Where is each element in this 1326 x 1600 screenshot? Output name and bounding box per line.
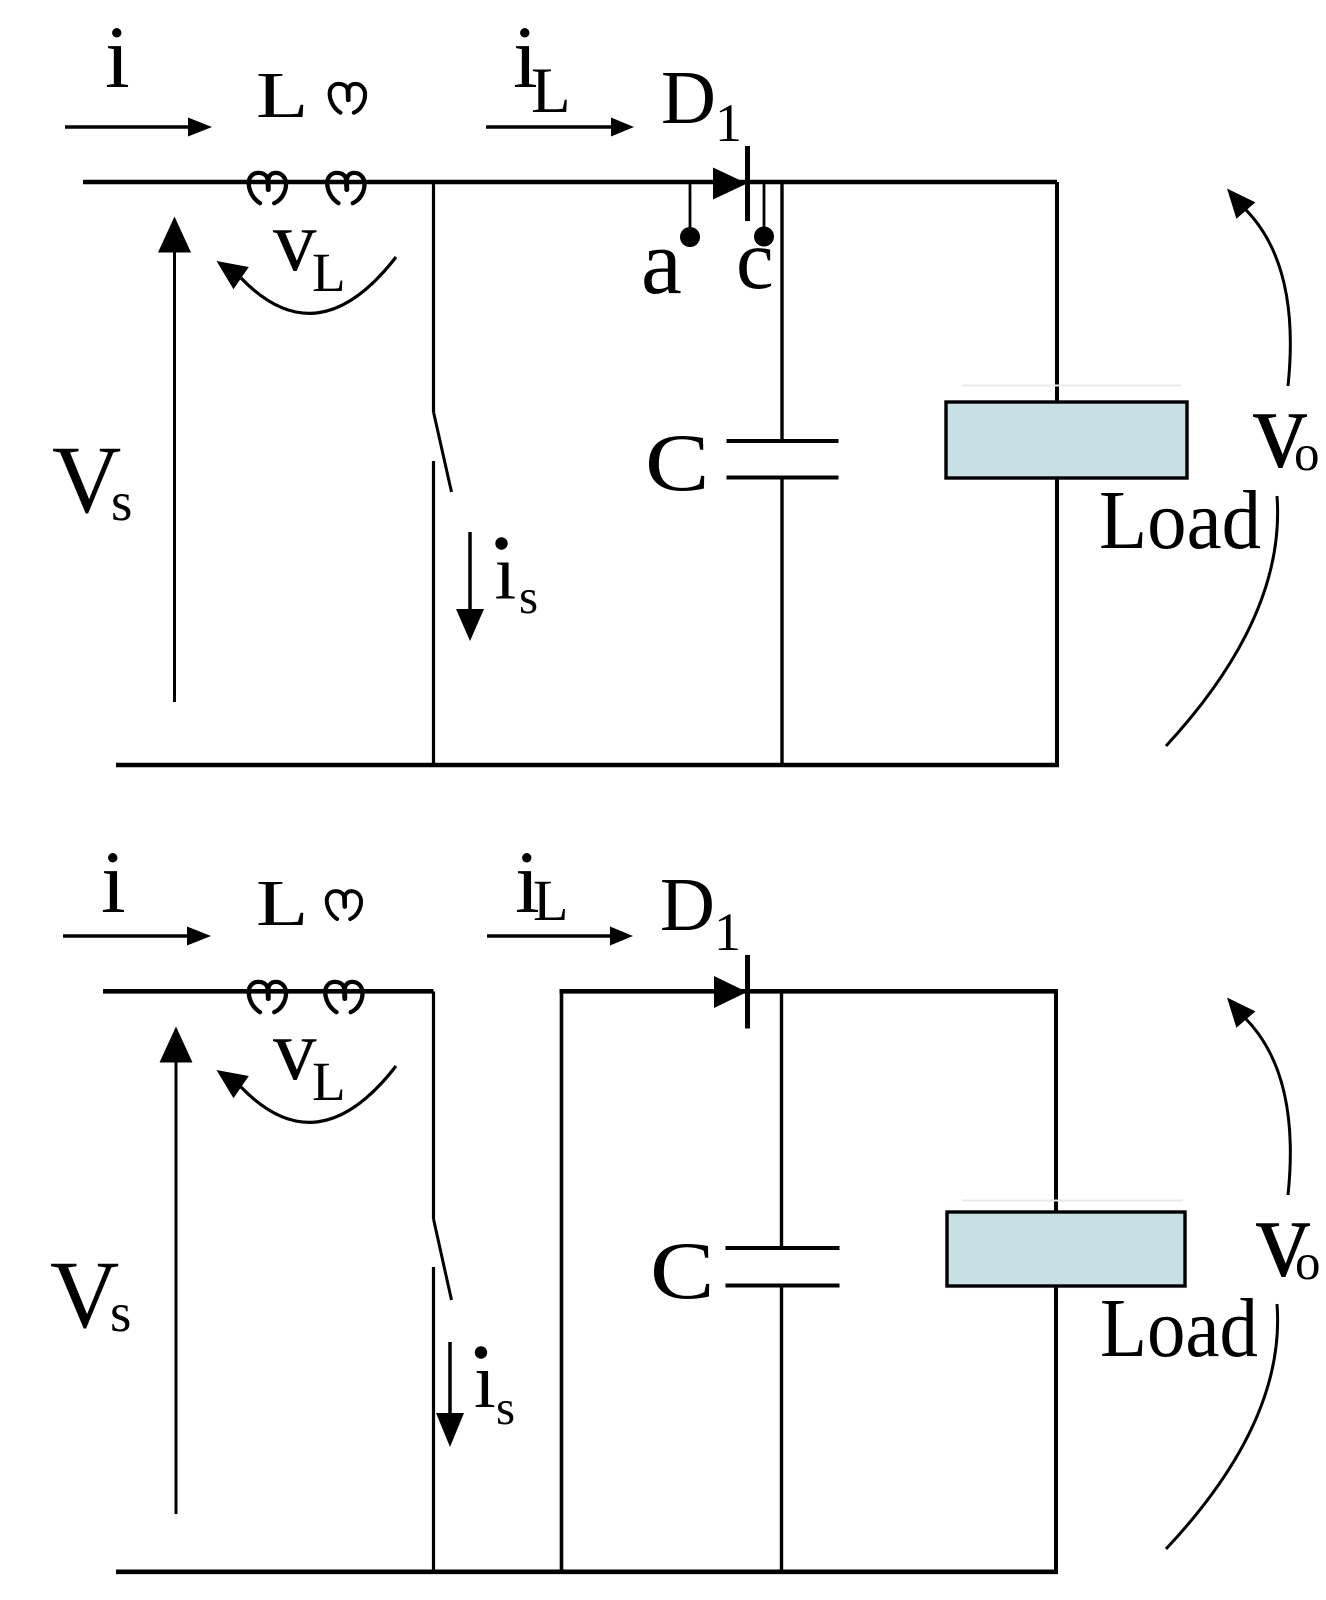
svg-text:v: v (273, 192, 317, 289)
svg-text:Load: Load (1099, 474, 1261, 567)
svg-text:i: i (101, 834, 126, 932)
svg-text:s: s (496, 1380, 515, 1435)
svg-text:L: L (256, 58, 308, 131)
svg-text:L: L (312, 242, 346, 303)
svg-text:s: s (111, 471, 132, 532)
svg-text:D: D (661, 56, 716, 140)
svg-text:v: v (273, 1001, 317, 1098)
svg-text:Load: Load (1100, 1282, 1258, 1375)
svg-text:a: a (641, 211, 682, 313)
svg-text:D: D (660, 863, 715, 947)
svg-text:o: o (1294, 426, 1320, 482)
svg-text:L: L (531, 55, 571, 127)
svg-text:C: C (645, 418, 710, 509)
svg-text:1: 1 (715, 93, 742, 153)
svg-text:L: L (312, 1051, 346, 1112)
svg-text:L: L (256, 866, 308, 939)
svg-text:o: o (1295, 1235, 1321, 1291)
svg-text:C: C (650, 1226, 715, 1317)
svg-text:s: s (519, 569, 538, 624)
svg-text:V: V (50, 1241, 119, 1348)
svg-text:i: i (105, 9, 130, 107)
svg-text:1: 1 (714, 902, 741, 962)
svg-text:s: s (110, 1282, 131, 1343)
svg-text:L: L (533, 868, 568, 933)
svg-text:c: c (736, 213, 774, 307)
